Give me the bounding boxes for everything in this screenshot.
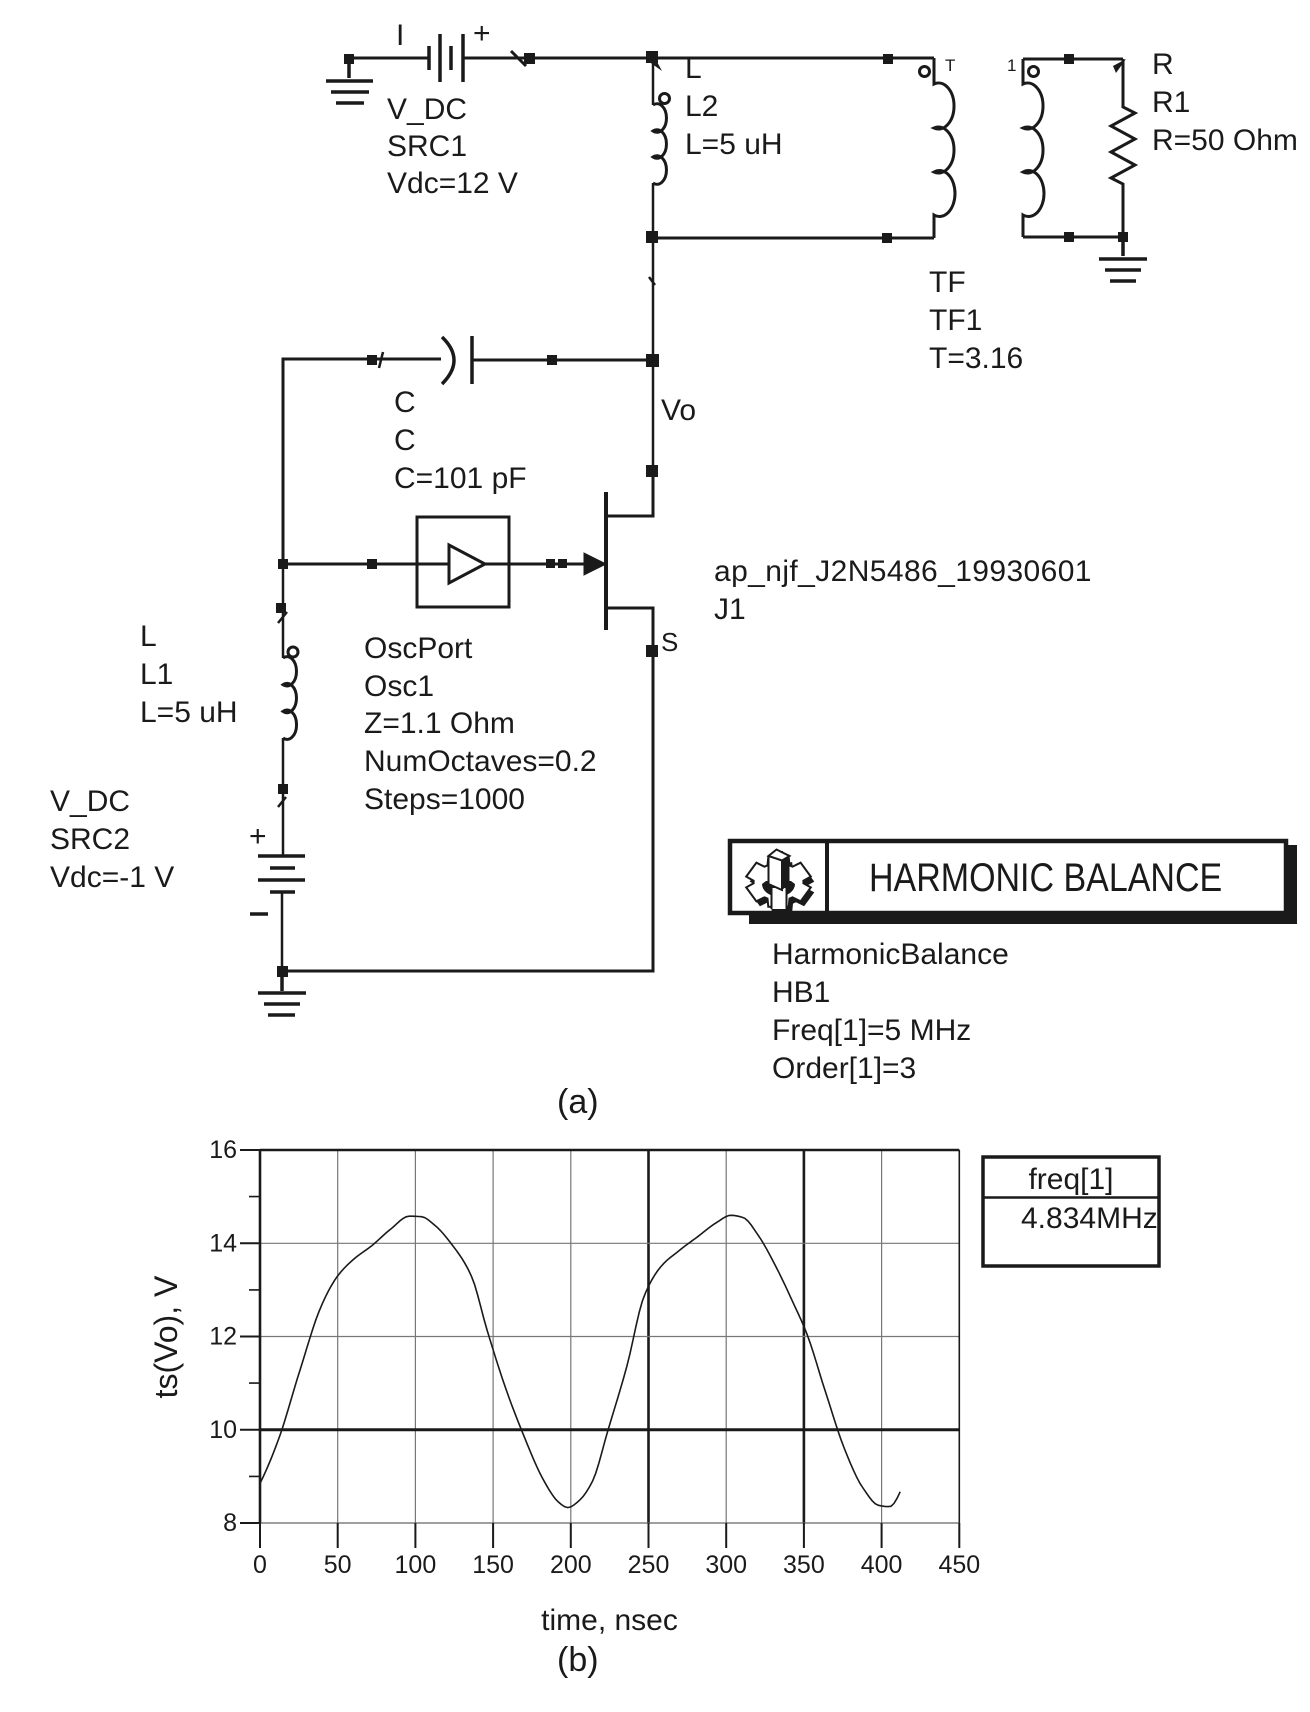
inductor L2 bbox=[653, 58, 670, 237]
junction square on secondary top wire bbox=[1064, 54, 1074, 64]
svg-text:(b): (b) bbox=[557, 1641, 599, 1679]
svg-text:L: L bbox=[140, 620, 157, 653]
arrow tick below node A bbox=[648, 58, 662, 71]
svg-text:16: 16 bbox=[209, 1136, 237, 1164]
wire tick on cap wire bbox=[379, 352, 383, 368]
x tick labels bbox=[253, 1551, 980, 1579]
svg-text:+: + bbox=[473, 17, 491, 50]
wire tick on top wire bbox=[511, 51, 526, 66]
label (b) bbox=[557, 1641, 599, 1679]
label R R1 R=50 Ohm bbox=[1152, 48, 1298, 157]
wire node A to TF primary top bbox=[658, 57, 934, 60]
svg-text:ap_njf_J2N5486_19930601: ap_njf_J2N5486_19930601 bbox=[714, 555, 1092, 588]
svg-text:Freq[1]=5 MHz: Freq[1]=5 MHz bbox=[772, 1014, 971, 1047]
svg-text:100: 100 bbox=[395, 1551, 437, 1579]
node C (Vo junction) bbox=[646, 354, 659, 367]
node at R1 bottom bbox=[1118, 232, 1128, 242]
wire node D to drain bbox=[607, 471, 653, 516]
junction square on secondary bottom wire bbox=[1064, 232, 1074, 242]
wire source down to bottom rail bbox=[282, 651, 653, 971]
svg-text:V_DC: V_DC bbox=[387, 93, 467, 126]
junction square on cap wire bbox=[367, 355, 377, 365]
wire node C to node D bbox=[652, 360, 655, 471]
label ap_njf_J2N5486_19930601 J1 bbox=[714, 555, 1092, 626]
svg-text:C: C bbox=[394, 424, 416, 457]
arrow tick at top of R1 bbox=[1113, 59, 1126, 73]
svg-text:R=50 Ohm: R=50 Ohm bbox=[1152, 124, 1298, 157]
label minus (SRC2) bbox=[250, 912, 268, 916]
capacitor C (curved plate) bbox=[442, 336, 472, 384]
y axis major ticks bbox=[240, 1150, 260, 1523]
plot heavy gridlines vertical (250, 350) bbox=[649, 1150, 804, 1523]
svg-text:OscPort: OscPort bbox=[364, 632, 473, 665]
transformer TF1 secondary winding bbox=[1023, 59, 1044, 237]
plot gridlines vertical bbox=[338, 1150, 882, 1523]
svg-text:300: 300 bbox=[705, 1551, 747, 1579]
node at SRC2 bottom bbox=[277, 966, 288, 977]
label V_DC SRC1 Vdc=12 V bbox=[387, 93, 518, 200]
svg-text:J1: J1 bbox=[714, 593, 746, 626]
label I (SRC1 minus lead) bbox=[396, 19, 404, 52]
svg-text:12: 12 bbox=[209, 1323, 237, 1351]
svg-text:R: R bbox=[1152, 48, 1174, 81]
node S (source) bbox=[646, 645, 658, 657]
svg-text:4.834MHz: 4.834MHz bbox=[1021, 1202, 1158, 1235]
title HARMONIC BALANCE bbox=[869, 854, 1222, 899]
harmonic balance controller shadow bbox=[749, 845, 1297, 924]
svg-text:C=101 pF: C=101 pF bbox=[394, 462, 527, 495]
freq marker table text bbox=[1021, 1163, 1158, 1235]
plot gridlines horizontal bbox=[260, 1243, 959, 1336]
resistor R1 bbox=[1111, 59, 1135, 237]
svg-text:200: 200 bbox=[550, 1551, 592, 1579]
node on L1 upper lead bbox=[276, 603, 286, 613]
svg-text:Vo: Vo bbox=[661, 394, 696, 427]
svg-text:ts(Vo), V: ts(Vo), V bbox=[148, 1275, 184, 1398]
node at GND1 bbox=[344, 54, 354, 64]
svg-text:T=3.16: T=3.16 bbox=[929, 342, 1023, 375]
svg-text:400: 400 bbox=[861, 1551, 903, 1579]
junction square on primary top wire bbox=[883, 54, 893, 64]
svg-text:150: 150 bbox=[472, 1551, 514, 1579]
svg-text:S: S bbox=[661, 627, 678, 657]
wire SRC1 to node A bbox=[463, 57, 652, 60]
svg-text:450: 450 bbox=[938, 1551, 980, 1579]
svg-text:R1: R1 bbox=[1152, 86, 1190, 119]
label HarmonicBalance HB1 Freq Order bbox=[772, 938, 1009, 1085]
inductor L1 bbox=[283, 564, 298, 856]
svg-text:Order[1]=3: Order[1]=3 bbox=[772, 1052, 916, 1085]
wire tick on L1 lower lead bbox=[278, 797, 286, 807]
label L L1 L=5 uH bbox=[140, 620, 238, 729]
svg-text:L=5 uH: L=5 uH bbox=[140, 696, 238, 729]
label Vo bbox=[661, 394, 696, 427]
svg-text:freq[1]: freq[1] bbox=[1028, 1163, 1113, 1196]
svg-text:250: 250 bbox=[628, 1551, 670, 1579]
wire TF secondary bottom to R1 bottom bbox=[1023, 236, 1123, 239]
pin circle TF1 primary bbox=[920, 67, 930, 77]
node A (top of L2) bbox=[646, 51, 658, 63]
svg-text:Osc1: Osc1 bbox=[364, 670, 434, 703]
corner node square at OscPort input bbox=[278, 559, 288, 569]
svg-text:0: 0 bbox=[253, 1551, 267, 1579]
svg-text:14: 14 bbox=[209, 1229, 237, 1257]
pin label 1 bbox=[1007, 56, 1016, 75]
svg-text:1: 1 bbox=[1007, 56, 1016, 75]
svg-text:L1: L1 bbox=[140, 658, 173, 691]
wire OscPort input bbox=[283, 563, 449, 566]
wire node B down to Vo node bbox=[652, 238, 655, 360]
wire OscPort output to gate bbox=[484, 563, 586, 566]
svg-text:Vdc=-1 V: Vdc=-1 V bbox=[50, 861, 174, 894]
svg-text:350: 350 bbox=[783, 1551, 825, 1579]
svg-text:8: 8 bbox=[223, 1509, 237, 1537]
label TF TF1 T=3.16 bbox=[929, 266, 1023, 375]
svg-text:Z=1.1 Ohm: Z=1.1 Ohm bbox=[364, 707, 515, 740]
junction square on primary bottom wire bbox=[882, 233, 892, 243]
plot heavy gridline horizontal (10 V) bbox=[260, 1428, 959, 1431]
svg-text:I: I bbox=[396, 19, 404, 52]
svg-text:TF1: TF1 bbox=[929, 304, 982, 337]
wire TF secondary top to R1 bbox=[1023, 58, 1123, 61]
ground GND3 (under SRC2) bbox=[258, 971, 306, 1015]
op-amp OscPort Osc1 box bbox=[417, 517, 509, 607]
svg-text:NumOctaves=0.2: NumOctaves=0.2 bbox=[364, 745, 597, 778]
x axis ticks bbox=[260, 1523, 959, 1548]
svg-text:SRC1: SRC1 bbox=[387, 130, 467, 163]
capacitor left corner wire bbox=[283, 359, 441, 564]
junction square right of capacitor bbox=[547, 355, 557, 365]
svg-text:time, nsec: time, nsec bbox=[541, 1604, 678, 1637]
svg-text:10: 10 bbox=[209, 1416, 237, 1444]
label V_DC SRC2 Vdc=-1 V bbox=[50, 785, 174, 894]
node on L1 lower lead bbox=[278, 784, 288, 794]
wire tick on Vo line bbox=[649, 277, 655, 285]
svg-text:HB1: HB1 bbox=[772, 976, 830, 1009]
wire capacitor to Vo node bbox=[472, 359, 653, 362]
svg-text:+: + bbox=[249, 820, 267, 853]
ground GND1 (under SRC1) bbox=[326, 61, 373, 103]
pin label T bbox=[945, 56, 955, 75]
label C C C=101 pF bbox=[394, 386, 527, 495]
label S bbox=[661, 627, 678, 657]
y axis minor ticks bbox=[249, 1197, 260, 1477]
svg-text:Steps=1000: Steps=1000 bbox=[364, 783, 525, 816]
svg-text:C: C bbox=[394, 386, 416, 419]
harmonic balance controller box bbox=[730, 841, 1286, 913]
svg-text:(a): (a) bbox=[557, 1083, 599, 1121]
plot frame bbox=[260, 1150, 959, 1523]
label OscPort Osc1 Z=1.1 Ohm NumOctaves=0.2 Steps=1000 bbox=[364, 632, 597, 816]
svg-text:HARMONIC BALANCE: HARMONIC BALANCE bbox=[869, 854, 1222, 899]
junction square on OscPort input wire bbox=[367, 559, 377, 569]
label + (SRC2) bbox=[249, 820, 267, 853]
svg-text:HarmonicBalance: HarmonicBalance bbox=[772, 938, 1009, 971]
svg-text:T: T bbox=[945, 56, 955, 75]
svg-text:SRC2: SRC2 bbox=[50, 823, 130, 856]
wire GND1 to SRC1 bbox=[349, 57, 429, 60]
battery V_DC SRC2 bbox=[258, 856, 305, 971]
wire tick on L1 upper lead bbox=[278, 612, 287, 623]
wire node B to TF primary bottom bbox=[652, 237, 934, 240]
y tick labels bbox=[209, 1136, 237, 1537]
battery V_DC SRC1 bbox=[429, 34, 463, 82]
svg-text:TF: TF bbox=[929, 266, 966, 299]
transistor J1 (JFET) bbox=[584, 492, 653, 646]
svg-text:L2: L2 bbox=[685, 90, 718, 123]
svg-text:50: 50 bbox=[324, 1551, 352, 1579]
label + (SRC1 plus lead) bbox=[473, 17, 491, 50]
node B (bottom of L2) bbox=[646, 231, 658, 243]
transformer TF1 primary winding bbox=[934, 58, 955, 238]
svg-text:V_DC: V_DC bbox=[50, 785, 130, 818]
junction square on top wire bbox=[524, 53, 535, 64]
y axis title ts(Vo), V bbox=[148, 1275, 184, 1398]
svg-text:L=5 uH: L=5 uH bbox=[685, 128, 783, 161]
gear icon HB bbox=[746, 850, 814, 912]
waveform ts(Vo) bbox=[260, 1215, 900, 1507]
label L L2 L=5 uH bbox=[685, 52, 783, 161]
label (a) bbox=[557, 1083, 599, 1121]
pin circle TF1 secondary bbox=[1029, 67, 1039, 77]
svg-text:Vdc=12 V: Vdc=12 V bbox=[387, 167, 518, 200]
node D (above drain) bbox=[646, 465, 658, 477]
junction squares on gate wire bbox=[546, 559, 567, 568]
ground GND2 (under R1) bbox=[1099, 242, 1147, 281]
freq marker table bbox=[983, 1157, 1159, 1266]
x axis title time, nsec bbox=[541, 1604, 678, 1637]
